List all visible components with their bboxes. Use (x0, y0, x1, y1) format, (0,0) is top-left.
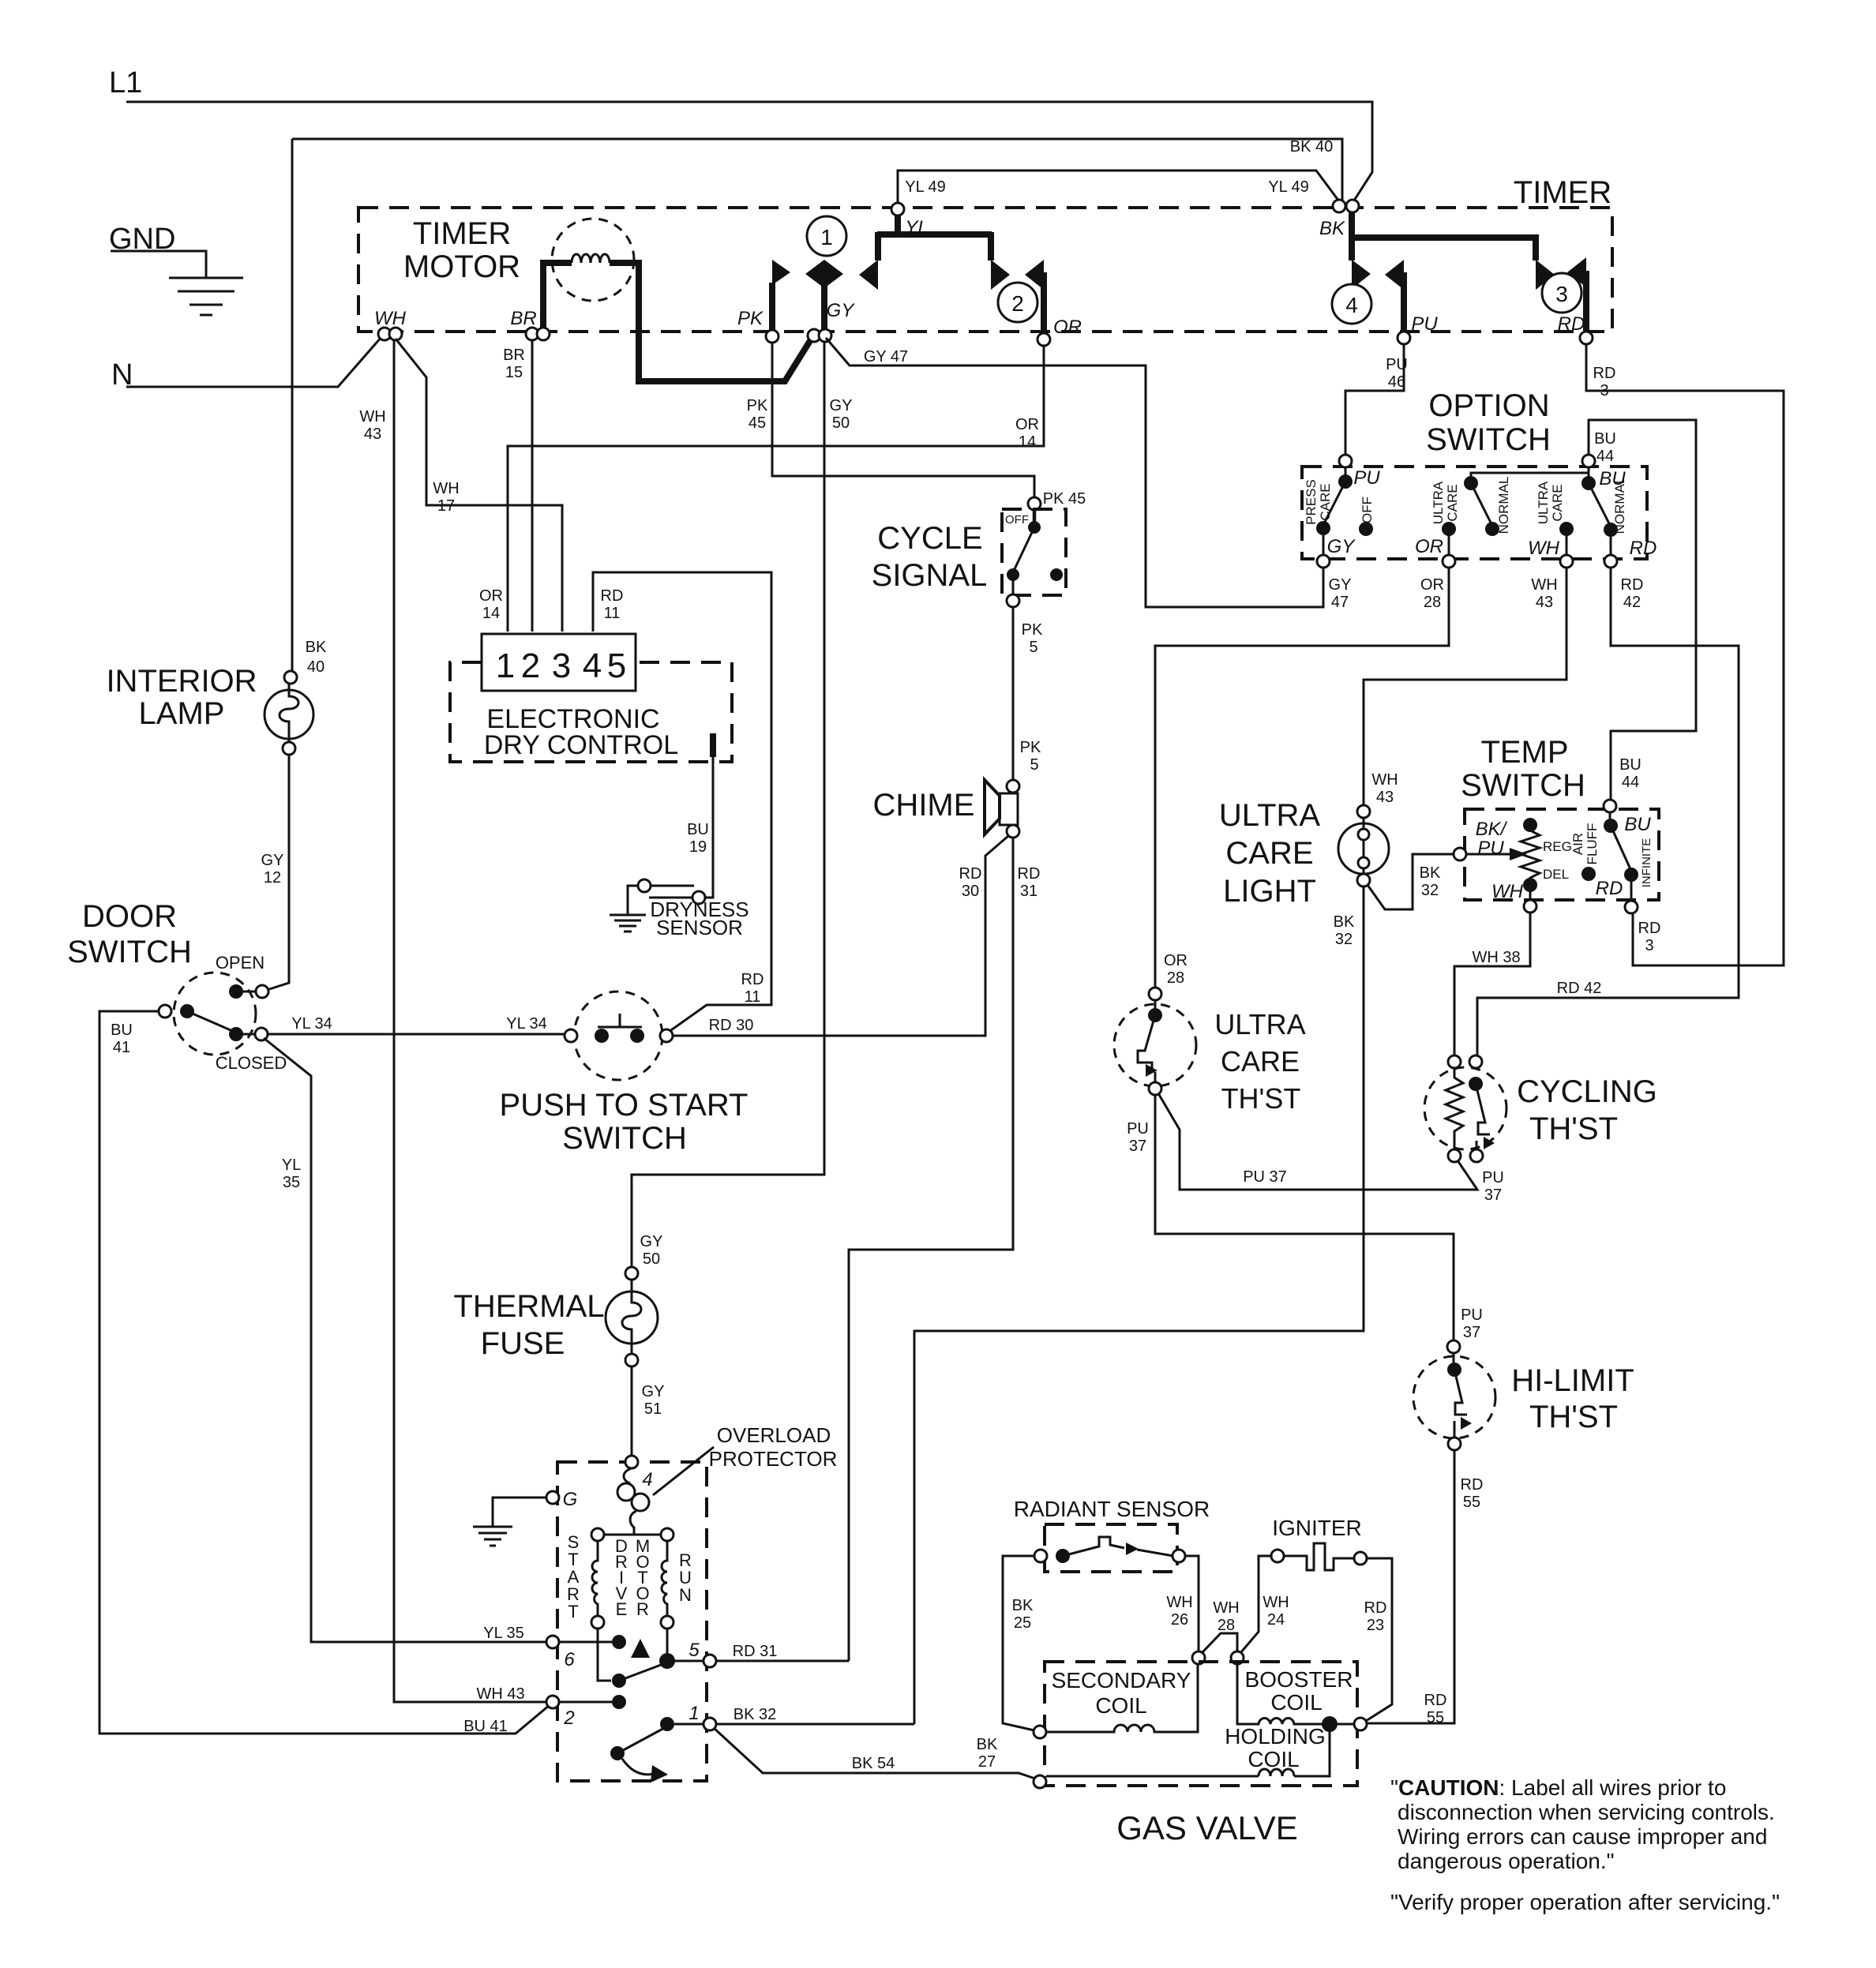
box drive motor (557, 1462, 707, 1781)
wire RD 55 (1367, 1450, 1454, 1723)
svg-text:OR: OR (479, 587, 503, 605)
svg-text:4: 4 (1345, 293, 1358, 317)
svg-text:5: 5 (1030, 756, 1038, 774)
box temp switch (1465, 809, 1659, 900)
svg-text:37: 37 (1484, 1186, 1502, 1204)
wire BU 44 (1589, 420, 1696, 800)
box gas valve (1045, 1662, 1357, 1786)
wire PK 45 (772, 343, 1034, 497)
svg-text:37: 37 (1463, 1324, 1480, 1341)
svg-text:BK: BK (1012, 1597, 1034, 1614)
svg-text:43: 43 (1376, 789, 1394, 806)
potentiometer temp switch resistor (1523, 818, 1537, 832)
svg-text:NORMAL: NORMAL (1612, 477, 1627, 534)
svg-text:WH: WH (1491, 881, 1524, 902)
svg-text:HOLDING: HOLDING (1225, 1724, 1326, 1749)
svg-text:PU 37: PU 37 (1243, 1168, 1287, 1186)
svg-text:NORMAL: NORMAL (1496, 477, 1511, 534)
svg-text:BK 40: BK 40 (1290, 138, 1333, 156)
svg-text:INFINITE: INFINITE (1640, 838, 1653, 888)
switch contact 1 right flag (991, 260, 1010, 290)
wire BK 32 to temp switch (1368, 854, 1454, 909)
node timer PU terminal (1398, 332, 1410, 344)
node gas valve secondary top (1192, 1651, 1205, 1664)
svg-text:RD 31: RD 31 (733, 1643, 778, 1660)
svg-text:TH'ST: TH'ST (1221, 1082, 1301, 1115)
svg-text:1: 1 (496, 647, 515, 685)
svg-text:28: 28 (1218, 1617, 1235, 1634)
svg-text:28: 28 (1424, 594, 1441, 611)
svg-text:BR: BR (503, 347, 525, 364)
wire WH 24 (1240, 1556, 1271, 1653)
wire RD 23 (1366, 1558, 1392, 1721)
svg-text:47: 47 (1331, 594, 1349, 611)
svg-text:BK: BK (1319, 218, 1345, 239)
svg-text:2: 2 (1011, 291, 1024, 316)
wire BK 32 motor (716, 1723, 914, 1726)
svg-text:OR: OR (1053, 317, 1082, 338)
node timer PK terminal (766, 330, 779, 343)
switch timer contact 3 flag (1536, 260, 1555, 290)
wire ground G (493, 1498, 546, 1527)
wire BU 19 (704, 757, 713, 898)
wire BK 32 down from lamp (914, 887, 1364, 1724)
inductor holding coil (1046, 1732, 1330, 1776)
node timer BK terminals (1333, 200, 1345, 212)
node temp switch WH (1524, 900, 1536, 913)
switch dryness sensor (638, 879, 651, 892)
svg-text:GY: GY (1327, 536, 1356, 557)
box electronic dry control (450, 662, 732, 762)
svg-text:T: T (568, 1602, 578, 1621)
svg-text:COIL: COIL (1095, 1693, 1146, 1718)
wire YL 35 (264, 1038, 547, 1642)
svg-text:SWITCH: SWITCH (67, 935, 192, 969)
svg-text:SWITCH: SWITCH (1426, 422, 1551, 457)
svg-text:BU: BU (1619, 756, 1641, 774)
wire WH 38 (1454, 913, 1530, 1055)
wire YL 34 (268, 1033, 565, 1036)
svg-text:OVERLOAD: OVERLOAD (717, 1423, 831, 1447)
svg-text:SWITCH: SWITCH (1461, 768, 1585, 803)
wire PU 37 branch to cycling (1158, 1093, 1477, 1190)
thermostat ultra care th'st (1149, 988, 1161, 1000)
svg-text:Wiring errors can cause improp: Wiring errors can cause improper and (1398, 1824, 1767, 1849)
svg-text:5: 5 (688, 1640, 700, 1661)
svg-text:55: 55 (1463, 1494, 1480, 1511)
node temp switch wiper (1454, 848, 1466, 860)
svg-text:THERMAL: THERMAL (453, 1289, 604, 1324)
contact option OR (1442, 522, 1456, 536)
inductor timer motor coil (552, 219, 634, 301)
svg-text:30: 30 (962, 883, 979, 900)
svg-text:disconnection when servicing c: disconnection when servicing controls. (1398, 1800, 1775, 1824)
svg-text:RD: RD (1593, 365, 1616, 382)
node gas valve booster top (1231, 1651, 1244, 1664)
svg-text:44: 44 (1622, 774, 1639, 791)
wire OR 14 (508, 346, 1044, 632)
wire RD 31 motor (716, 1660, 849, 1662)
wire WH 17 (396, 339, 562, 632)
svg-text:YL 34: YL 34 (506, 1015, 547, 1033)
svg-text:17: 17 (437, 497, 455, 515)
svg-text:12: 12 (264, 869, 281, 887)
winding run (661, 1528, 673, 1541)
inductor secondary coil (1046, 1664, 1198, 1732)
svg-text:BU 41: BU 41 (463, 1718, 508, 1735)
svg-text:RD: RD (1621, 576, 1644, 594)
svg-text:CARE: CARE (1221, 1045, 1300, 1078)
lamp interior lamp (284, 671, 297, 684)
svg-text:DRY CONTROL: DRY CONTROL (484, 730, 678, 760)
svg-text:LAMP: LAMP (139, 696, 225, 731)
svg-text:OFF: OFF (1005, 513, 1029, 527)
switch option pole 1 press care (1345, 467, 1347, 477)
svg-text:3: 3 (1555, 282, 1568, 306)
svg-text:BK: BK (1420, 864, 1441, 882)
svg-text:31: 31 (1020, 883, 1037, 900)
svg-text:GY: GY (1329, 576, 1352, 594)
wire dryness sensor ground lead (628, 886, 638, 915)
node PK 5 (1007, 594, 1019, 607)
arrow curved actuator (622, 1759, 657, 1775)
contact air fluff dot (1581, 867, 1596, 881)
svg-text:REG: REG (1543, 839, 1572, 854)
svg-text:TEMP: TEMP (1480, 735, 1568, 770)
svg-text:OR: OR (1164, 952, 1188, 969)
svg-text:4: 4 (642, 1469, 652, 1490)
svg-text:RD: RD (1638, 920, 1661, 937)
wire RD 11 (593, 572, 771, 1032)
svg-text:25: 25 (1014, 1614, 1031, 1632)
svg-text:TIMER: TIMER (1514, 175, 1611, 210)
thermostat hi-limit th'st (1447, 1340, 1460, 1353)
svg-text:51: 51 (644, 1400, 662, 1418)
wire pointer overload (653, 1447, 714, 1495)
wire BK 40 top rail (292, 139, 1342, 201)
switch centrifugal start (612, 1674, 626, 1688)
svg-text:G: G (563, 1489, 578, 1510)
node secondary coil left (1034, 1726, 1046, 1738)
svg-text:ULTRA: ULTRA (1219, 798, 1320, 833)
svg-text:3: 3 (1600, 382, 1608, 399)
svg-text:23: 23 (1367, 1617, 1384, 1634)
junction booster holding (1322, 1716, 1338, 1732)
svg-text:42: 42 (1623, 594, 1641, 611)
node temp BU 44 (1604, 800, 1616, 812)
svg-text:ULTRA: ULTRA (1214, 1008, 1305, 1040)
svg-text:INTERIOR: INTERIOR (106, 664, 257, 699)
wire RD 42 (1477, 568, 1739, 1055)
svg-text:11: 11 (604, 605, 621, 622)
wire BK 54 (714, 1728, 1035, 1779)
svg-text:RD: RD (1596, 878, 1623, 899)
svg-text:19: 19 (689, 838, 707, 856)
svg-text:OR: OR (1420, 576, 1444, 594)
node motor pin 5 (675, 1660, 703, 1662)
svg-text:BU: BU (687, 821, 709, 838)
wire BU 41 (99, 1011, 550, 1734)
svg-text:YL 49: YL 49 (1268, 178, 1309, 196)
svg-text:FLUFF: FLUFF (1585, 823, 1600, 865)
svg-text:GY: GY (642, 1383, 665, 1400)
svg-text:BU: BU (1594, 430, 1616, 448)
svg-text:1: 1 (820, 225, 833, 249)
node PK 45 cycle signal (1028, 497, 1041, 510)
svg-text:CYCLING: CYCLING (1517, 1074, 1657, 1109)
switch radiant sensor (1034, 1550, 1047, 1562)
ground dryness sensor (610, 915, 646, 932)
svg-text:41: 41 (113, 1039, 130, 1056)
svg-text:RD 42: RD 42 (1557, 980, 1602, 997)
svg-text:PK: PK (737, 308, 764, 329)
wire GY 47 (826, 338, 1323, 607)
svg-text:ULTRA: ULTRA (1536, 481, 1551, 524)
svg-text:24: 24 (1267, 1611, 1285, 1629)
svg-text:CARE: CARE (1318, 483, 1333, 520)
wire WH 26 (1185, 1556, 1199, 1651)
svg-text:RADIANT SENSOR: RADIANT SENSOR (1014, 1497, 1210, 1521)
svg-text:WH: WH (374, 308, 407, 329)
svg-text:4: 4 (583, 647, 602, 685)
svg-text:GY: GY (261, 852, 284, 869)
svg-text:CARE: CARE (1445, 484, 1460, 521)
svg-text:SECONDARY: SECONDARY (1052, 1668, 1191, 1692)
wire YL thick bar of contact 1 (877, 207, 992, 261)
wire YL 49 link (898, 171, 1339, 204)
svg-text:SENSOR: SENSOR (656, 916, 743, 939)
node option PU (1339, 455, 1352, 467)
svg-text:BU: BU (111, 1021, 133, 1039)
svg-text:PK: PK (747, 397, 768, 414)
svg-text:28: 28 (1167, 969, 1184, 987)
winding start (598, 1534, 667, 1536)
svg-text:GY: GY (827, 300, 856, 321)
svg-text:RD 30: RD 30 (709, 1017, 754, 1034)
svg-text:SIGNAL: SIGNAL (872, 558, 988, 593)
svg-text:14: 14 (482, 605, 500, 622)
switch option pole 2 ultra care (1471, 473, 1589, 483)
wire RD 3 (1586, 344, 1784, 965)
switch temp BU to infinite (1609, 812, 1611, 821)
svg-text:FUSE: FUSE (481, 1326, 565, 1361)
node RD 55 gas valve (1354, 1718, 1367, 1730)
svg-text:BU: BU (1624, 814, 1651, 835)
node option BU (1582, 455, 1595, 467)
svg-text:15: 15 (505, 364, 523, 381)
wire OR 28 (1155, 568, 1449, 988)
svg-text:CLOSED: CLOSED (216, 1053, 287, 1073)
svg-text:GY 47: GY 47 (864, 348, 908, 365)
svg-text:WH: WH (1213, 1599, 1239, 1617)
svg-text:GY: GY (830, 397, 853, 414)
svg-text:WH: WH (1371, 771, 1398, 789)
svg-text:COIL: COIL (1270, 1690, 1322, 1715)
svg-text:N: N (679, 1585, 692, 1605)
svg-text:TH'ST: TH'ST (1529, 1111, 1618, 1146)
svg-text:GY: GY (640, 1233, 663, 1250)
wiper arrow temp switch (1466, 853, 1513, 856)
svg-text:3: 3 (552, 647, 571, 685)
svg-text:44: 44 (1596, 448, 1614, 465)
wire PU 37 main (1155, 1095, 1454, 1340)
svg-text:CHIME: CHIME (873, 788, 975, 823)
wire L1 rail (126, 102, 1372, 203)
svg-text:14: 14 (1019, 433, 1036, 451)
svg-text:YL 35: YL 35 (483, 1625, 524, 1642)
svg-text:PU: PU (1461, 1306, 1483, 1324)
wire WH 43 right (1364, 568, 1566, 805)
svg-text:TIMER: TIMER (413, 216, 511, 251)
switch timer contact 2 left flag (1025, 260, 1044, 290)
switch timer contact 1 PK flag (769, 283, 775, 335)
switch timer contact 4 moving flag (1385, 260, 1404, 290)
wire BK 40 lamp rail (291, 139, 294, 671)
svg-text:43: 43 (364, 425, 381, 443)
svg-text:WH: WH (1263, 1594, 1289, 1611)
svg-text:WH: WH (1531, 576, 1557, 594)
node timer RD terminal (1580, 332, 1593, 344)
node GY 51 on motor box (625, 1456, 638, 1468)
svg-text:AIR: AIR (1570, 833, 1585, 855)
svg-text:RD: RD (1364, 1599, 1387, 1617)
svg-text:PU: PU (1477, 838, 1504, 859)
wire WH 43 left rail (394, 339, 547, 1702)
svg-text:RD: RD (601, 587, 624, 605)
svg-text:COIL: COIL (1248, 1747, 1299, 1771)
node timer WH terminals (378, 328, 391, 340)
svg-text:5: 5 (607, 647, 626, 685)
node timer BR terminals (526, 328, 538, 340)
svg-text:26: 26 (1171, 1611, 1188, 1629)
svg-text:MOTOR: MOTOR (403, 249, 520, 284)
node timer OR terminal (1037, 333, 1050, 346)
wire BK thick bar contacts 4 and 3 (1351, 206, 1536, 261)
svg-text:RD: RD (741, 971, 764, 988)
switch cycle signal (1033, 508, 1037, 526)
svg-text:BR: BR (510, 308, 536, 329)
node timer GY terminals (808, 329, 820, 342)
wire BK 25 (1003, 1556, 1034, 1730)
svg-text:PK: PK (1020, 739, 1041, 756)
svg-text:27: 27 (978, 1753, 996, 1771)
svg-text:6: 6 (564, 1649, 575, 1670)
lamp ultra care light (1357, 805, 1370, 818)
actuator arrow up (631, 1639, 650, 1658)
box option switch (1302, 467, 1647, 559)
inductor booster coil (1237, 1664, 1323, 1724)
svg-text:1: 1 (688, 1703, 699, 1724)
svg-text:TH'ST: TH'ST (1529, 1400, 1618, 1434)
wire PU 46 (1345, 344, 1404, 455)
svg-text:GAS VALVE: GAS VALVE (1116, 1809, 1298, 1846)
svg-text:PU: PU (1386, 356, 1408, 373)
svg-text:50: 50 (643, 1250, 660, 1268)
svg-text:YL: YL (282, 1156, 301, 1174)
wire N lead to timer WH (126, 337, 381, 387)
svg-text:32: 32 (1421, 882, 1439, 899)
wire BR 15 (531, 340, 534, 632)
svg-text:BK 54: BK 54 (852, 1755, 895, 1772)
svg-text:PROTECTOR: PROTECTOR (709, 1447, 838, 1471)
svg-text:DEL: DEL (1543, 867, 1569, 882)
wire GY 50 (632, 342, 824, 1267)
wire GND lead (111, 251, 206, 278)
svg-text:3: 3 (1645, 937, 1653, 954)
svg-text:WH: WH (1528, 538, 1560, 559)
wire RD 30 (672, 836, 1008, 1036)
svg-text:YL: YL (905, 217, 928, 238)
node timer YL terminal (891, 203, 904, 216)
svg-text:WH 38: WH 38 (1472, 949, 1520, 966)
wire GY 12 (267, 755, 289, 990)
label circled 1 (807, 216, 846, 256)
svg-text:RD: RD (1630, 538, 1657, 559)
switch contact 1 left flag (859, 260, 878, 290)
svg-text:R: R (636, 1599, 649, 1619)
svg-text:"CAUTION: Label all wires prio: "CAUTION: Label all wires prior to (1390, 1775, 1726, 1800)
switch timer contact 3 moving flag (1567, 257, 1586, 287)
svg-text:WH: WH (1166, 1594, 1192, 1611)
node motor pin 6 (546, 1636, 559, 1648)
svg-text:2: 2 (521, 647, 540, 685)
box radiant sensor (1045, 1524, 1177, 1572)
svg-text:dangerous operation.": dangerous operation." (1398, 1849, 1615, 1873)
svg-text:PU: PU (1127, 1120, 1149, 1138)
svg-text:PUSH TO START: PUSH TO START (500, 1088, 749, 1123)
svg-text:OR: OR (1415, 536, 1443, 557)
switch push to start (574, 991, 662, 1080)
svg-text:WH: WH (433, 480, 459, 497)
speaker chime (1007, 780, 1019, 793)
svg-text:40: 40 (307, 658, 325, 676)
thermostat cycling th'st (1448, 1055, 1461, 1068)
svg-text:43: 43 (1536, 594, 1553, 611)
svg-text:IGNITER: IGNITER (1272, 1516, 1362, 1540)
svg-text:ULTRA: ULTRA (1431, 481, 1446, 524)
switch motor relay lower (610, 1746, 625, 1760)
svg-text:BOOSTER: BOOSTER (1245, 1667, 1353, 1692)
wire GY 51 (631, 1366, 633, 1456)
switch door switch (174, 973, 256, 1055)
connector block electronic dry control pins (482, 634, 636, 691)
node G terminal (546, 1491, 559, 1504)
svg-text:32: 32 (1335, 931, 1353, 948)
svg-text:DOOR: DOOR (82, 899, 177, 934)
label circled 2 (998, 283, 1037, 322)
svg-text:PU: PU (1482, 1169, 1504, 1186)
svg-text:CARE: CARE (1225, 836, 1313, 871)
svg-text:55: 55 (1427, 1709, 1444, 1726)
label circled 4 (1332, 284, 1371, 324)
svg-text:CARE: CARE (1550, 484, 1565, 521)
svg-text:PU: PU (1411, 313, 1438, 335)
svg-text:PK: PK (1022, 621, 1043, 639)
svg-text:BK 32: BK 32 (734, 1706, 776, 1723)
switch cycling lever (1469, 1077, 1483, 1091)
node holding coil left (1034, 1775, 1046, 1788)
svg-text:LIGHT: LIGHT (1223, 874, 1316, 909)
resistor cycling heater (1446, 1068, 1463, 1149)
svg-text:OR: OR (1015, 416, 1039, 433)
svg-text:L1: L1 (109, 66, 142, 99)
svg-text:BK: BK (1334, 913, 1355, 931)
svg-text:35: 35 (283, 1174, 300, 1191)
svg-text:"Verify proper operation after: "Verify proper operation after servicing… (1390, 1890, 1780, 1914)
svg-text:11: 11 (745, 988, 761, 1006)
svg-text:2: 2 (563, 1707, 574, 1729)
overload protector (624, 1468, 632, 1483)
